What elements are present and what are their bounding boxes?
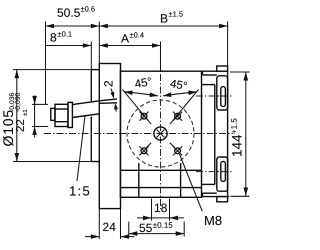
M8 leader bbox=[180, 154, 203, 211]
dashed pitch circle bbox=[127, 100, 194, 167]
taper shaft bbox=[72, 99, 117, 118]
45deg arc left bbox=[124, 91, 158, 98]
diag legs lower bbox=[146, 143, 175, 148]
label B bbox=[161, 11, 183, 22]
label M8 bbox=[205, 216, 221, 225]
label 45 right bbox=[170, 80, 187, 89]
45deg arc right bbox=[163, 91, 197, 98]
label 8 bbox=[51, 31, 72, 41]
flange plate side view bbox=[99, 64, 120, 209]
centerline horizontal bbox=[44, 133, 233, 135]
label 45 left bbox=[135, 77, 151, 87]
front view body bbox=[120, 71, 201, 197]
dim 18 bbox=[137, 199, 184, 221]
port centerline upper bbox=[196, 95, 233, 97]
dim 55 bbox=[129, 222, 184, 237]
dim 22 bbox=[32, 96, 48, 138]
washer bbox=[68, 102, 72, 127]
label 1:5 bbox=[70, 186, 89, 195]
dim A bbox=[99, 22, 160, 73]
right side profile bbox=[202, 71, 230, 196]
label 2 bbox=[104, 81, 112, 86]
bolt hole bottom-right bbox=[173, 146, 182, 155]
label 22 bbox=[16, 110, 27, 132]
lip bottom bbox=[217, 197, 228, 202]
shaft end cap bbox=[51, 108, 55, 120]
leader 1:5 bbox=[77, 116, 85, 181]
port boss upper bbox=[217, 76, 228, 110]
dim 24 bbox=[85, 209, 135, 239]
center hole bbox=[154, 127, 167, 140]
label O105 tol upper bbox=[9, 93, 14, 112]
port centerline lower bbox=[196, 171, 233, 173]
dim 8 bbox=[46, 42, 92, 70]
label A bbox=[121, 32, 144, 42]
label 50.5 bbox=[57, 6, 94, 17]
label 24 bbox=[103, 223, 115, 231]
center hole inner cross bbox=[157, 130, 165, 138]
centerline vertical bbox=[160, 74, 162, 209]
label 144 bbox=[231, 119, 241, 156]
top edge to profile bbox=[202, 70, 228, 72]
dim O105 bbox=[13, 70, 99, 162]
hex nut bbox=[55, 104, 68, 126]
45deg legs bbox=[123, 90, 199, 125]
dim 50.5 bbox=[46, 22, 100, 105]
label 55 bbox=[139, 222, 172, 232]
port boss lower bbox=[217, 157, 228, 191]
bolt hole top-left bbox=[139, 112, 148, 121]
pilot boss O105 bbox=[91, 70, 99, 162]
lip top bbox=[217, 66, 228, 71]
label 18 bbox=[155, 204, 167, 212]
label O105 tol lower bbox=[15, 93, 21, 112]
label O105 bbox=[3, 110, 13, 146]
bolt hole bottom-left bbox=[139, 146, 148, 155]
dim 2 bbox=[110, 89, 118, 112]
dim B bbox=[99, 22, 227, 67]
bolt hole top-right bbox=[173, 112, 182, 121]
dim 144 bbox=[230, 72, 250, 196]
